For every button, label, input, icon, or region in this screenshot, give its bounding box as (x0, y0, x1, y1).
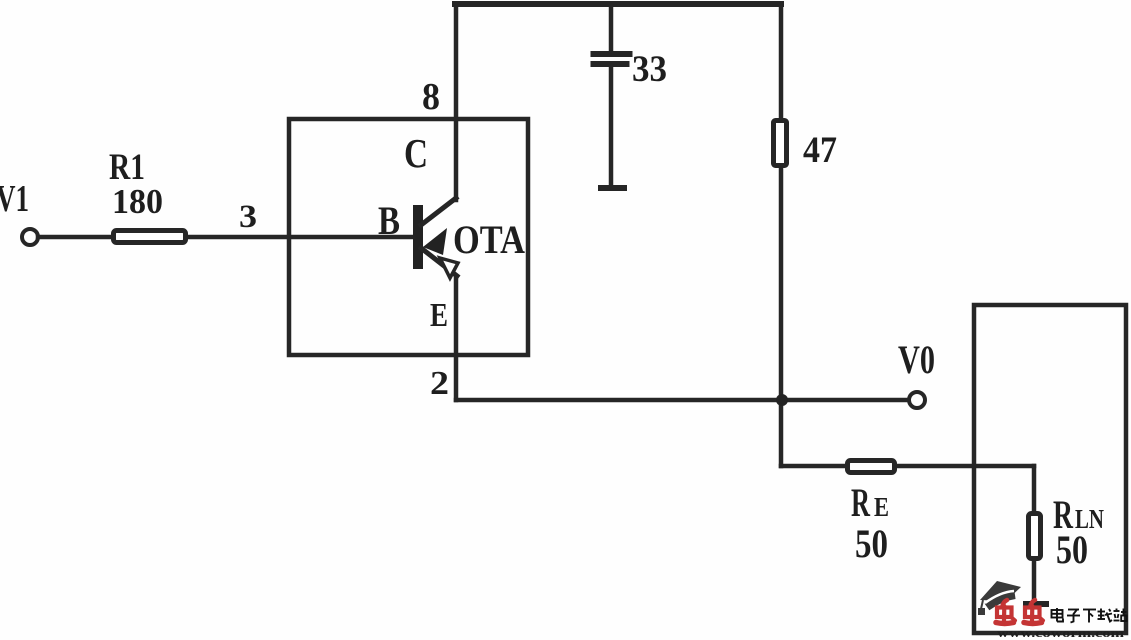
resistor R1 (114, 231, 186, 243)
svg-text:3: 3 (239, 199, 257, 235)
svg-text:www.coworm.com: www.coworm.com (997, 626, 1124, 640)
wire node to RE (781, 464, 845, 469)
wire collector vertical (454, 4, 459, 200)
svg-text:OTA: OTA (453, 217, 525, 262)
char xia (1083, 610, 1096, 623)
wire right vertical upper (779, 4, 784, 119)
resistor RLN (1029, 514, 1041, 559)
transistor collector lead (421, 198, 456, 225)
svg-text:B: B (378, 198, 400, 243)
svg-text:50: 50 (1056, 527, 1088, 572)
char dian (1052, 608, 1064, 622)
watermark logo graduation cap (978, 581, 1021, 615)
ground (capacitor) (598, 185, 627, 191)
transistor emitter arrow (open tip) (440, 258, 458, 278)
transistor emitter arrow (filled, pointing to bar) (423, 228, 447, 255)
svg-text:R: R (851, 480, 871, 525)
wire RE to load box (897, 464, 1034, 469)
wire top bus (455, 1, 781, 7)
wire right vertical lower (779, 168, 784, 466)
resistor 47 (774, 121, 787, 166)
terminal V1 (22, 229, 38, 245)
wire V1 to R1 (38, 235, 111, 240)
svg-text:E: E (430, 297, 448, 334)
wire R1 to base (188, 235, 414, 240)
char zi (1067, 610, 1080, 623)
svg-text:C: C (404, 130, 428, 176)
wire load vertical (1032, 466, 1037, 511)
transistor OTA base bar (413, 205, 423, 269)
resistor RE (848, 461, 895, 473)
capacitor C 33 (591, 4, 633, 186)
node junction (776, 394, 788, 406)
char zai (1098, 609, 1113, 622)
svg-text:50: 50 (855, 521, 888, 566)
svg-text:180: 180 (112, 182, 163, 221)
terminal V0 (909, 392, 925, 408)
wire RLN to ground (1032, 561, 1037, 603)
transistor emitter lead (421, 248, 457, 276)
svg-text:2: 2 (430, 365, 449, 402)
wire emitter vertical (454, 277, 459, 400)
load box (974, 305, 1126, 633)
ground (RLN) (1023, 601, 1049, 607)
svg-text:V1: V1 (0, 178, 29, 220)
watermark text dianzi xiazaizhan (1052, 608, 1127, 623)
watermark logo bug character 2 (1024, 600, 1043, 624)
char zhan (1114, 609, 1127, 622)
svg-text:E: E (874, 492, 889, 522)
wire output horizontal (456, 398, 909, 403)
svg-text:V0: V0 (898, 337, 935, 382)
watermark logo bug character 1 (996, 600, 1015, 624)
svg-text:47: 47 (803, 130, 837, 171)
IC box OTA (289, 119, 528, 355)
svg-text:8: 8 (422, 76, 440, 118)
svg-text:33: 33 (632, 49, 667, 90)
